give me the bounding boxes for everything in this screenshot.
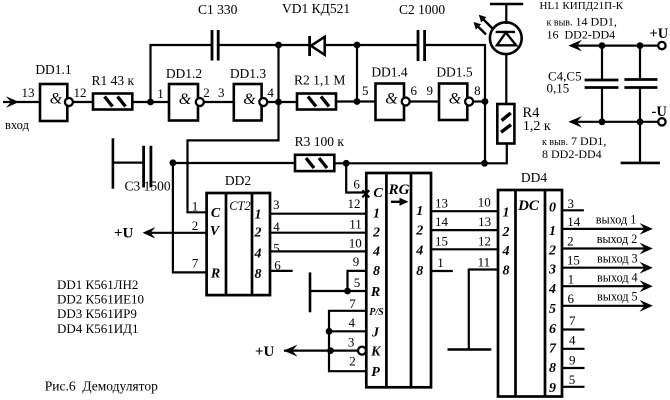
svg-text:&: &	[179, 91, 192, 108]
svg-text:выход 2: выход 2	[597, 232, 638, 246]
svg-text:5: 5	[354, 275, 361, 290]
svg-text:4: 4	[267, 85, 274, 100]
block DD4 К561ИД1 (DC)	[498, 170, 562, 397]
wire C3 node to R3	[173, 162, 295, 164]
svg-text:выход 3: выход 3	[597, 251, 638, 265]
svg-text:10: 10	[478, 195, 491, 210]
svg-text:1: 1	[192, 199, 199, 214]
output wire выход 1	[562, 213, 653, 235]
svg-text:1: 1	[437, 255, 444, 270]
svg-text:3: 3	[568, 196, 575, 211]
svg-text:R: R	[370, 285, 380, 300]
svg-text:0,15: 0,15	[547, 80, 570, 95]
wire DD2 out 4 to DD3 in 4	[270, 250, 366, 252]
wire R1 to DD1.2	[132, 101, 169, 103]
resistor R4 1,2 к	[497, 104, 551, 144]
wire to DD4 in 8 from common bar	[469, 270, 498, 350]
common bar stub at DD3 R row	[309, 272, 312, 312]
svg-text:4: 4	[569, 333, 576, 348]
svg-text:CT2: CT2	[229, 199, 251, 213]
svg-text:&: &	[449, 91, 462, 108]
svg-text:3: 3	[273, 197, 280, 212]
gate DD1.5	[436, 65, 473, 120]
open stub DD4 out 8	[562, 367, 585, 369]
svg-text:15: 15	[567, 252, 580, 267]
output wire выход 5	[562, 289, 653, 311]
svg-text:2: 2	[567, 234, 574, 249]
wire DD1.2 to DD1.3	[205, 101, 234, 103]
wire C2 right to vertical drop	[425, 45, 485, 163]
wire R4 bottom to node	[485, 144, 507, 164]
svg-text:&: &	[385, 91, 398, 108]
svg-text:DD1.3: DD1.3	[230, 66, 267, 81]
LED triangle	[497, 33, 516, 46]
-U rail	[568, 104, 667, 128]
svg-text:DD4 К561ИД1: DD4 К561ИД1	[57, 321, 138, 336]
wire K row to bubble	[284, 350, 359, 352]
node at DD1.4 input	[354, 98, 361, 105]
svg-text:R1 43 к: R1 43 к	[92, 73, 135, 88]
node C5 top	[637, 42, 644, 49]
svg-text:14: 14	[435, 214, 449, 229]
capacitor C5	[624, 46, 657, 122]
svg-text:HL1 КИПД21П-К: HL1 КИПД21П-К	[540, 0, 624, 12]
svg-text:выход 4: выход 4	[597, 270, 638, 284]
resistor R1 43 к	[92, 73, 135, 110]
svg-text:9: 9	[427, 83, 434, 98]
svg-text:2: 2	[548, 243, 556, 258]
wire DD3 out 2 to DD4 in 2	[431, 229, 497, 231]
node R3 right	[343, 160, 350, 167]
svg-text:7: 7	[569, 313, 576, 328]
svg-text:8: 8	[549, 361, 556, 376]
svg-text:DD1.4: DD1.4	[371, 65, 408, 80]
open stub wire DD2 out 8	[270, 270, 293, 272]
+U arrow at DD3 K row	[255, 344, 298, 360]
svg-text:DD2 К561ИЕ10: DD2 К561ИЕ10	[57, 292, 144, 307]
wire node down and over to DD2 C input	[188, 45, 279, 212]
dynamic input mark at DD3 C	[362, 190, 369, 197]
svg-text:3: 3	[218, 85, 225, 100]
svg-text:11: 11	[349, 217, 362, 232]
svg-text:5: 5	[569, 372, 576, 387]
wire DD1.3 to R2	[268, 101, 297, 103]
svg-text:2: 2	[192, 218, 199, 233]
svg-text:3: 3	[348, 334, 355, 349]
LED cathode bar	[496, 31, 515, 33]
input arrow (вход)	[3, 96, 40, 132]
svg-text:4: 4	[372, 244, 380, 259]
gate DD1.3	[230, 66, 267, 121]
top wire to C1	[150, 44, 213, 46]
svg-text:DD1.2: DD1.2	[166, 66, 202, 81]
C4,C5 value label	[547, 68, 582, 95]
svg-text:выход 1: выход 1	[596, 213, 637, 227]
svg-text:DD1.1: DD1.1	[35, 62, 71, 77]
capacitor C1 330	[198, 2, 238, 61]
svg-text:9: 9	[549, 381, 556, 396]
svg-text:Рис.6 Демодулятор: Рис.6 Демодулятор	[45, 379, 158, 394]
svg-text:R2 1,1 М: R2 1,1 М	[294, 73, 345, 88]
svg-text:DD1 К561ЛН2: DD1 К561ЛН2	[57, 277, 138, 292]
svg-text:6: 6	[410, 83, 417, 98]
svg-text:+U: +U	[114, 226, 134, 242]
open stub DD4 out 6	[562, 328, 585, 330]
svg-text:-U: -U	[652, 104, 668, 120]
wire DD1.5 to node	[474, 100, 486, 102]
svg-text:2: 2	[254, 226, 262, 241]
svg-text:+U: +U	[650, 26, 669, 42]
svg-text:12: 12	[74, 85, 87, 100]
svg-text:4: 4	[254, 247, 262, 262]
gate DD1.2	[166, 66, 204, 121]
gate DD1.4	[371, 65, 409, 120]
wire node up to top rail	[356, 45, 358, 102]
svg-text:&: &	[243, 91, 256, 108]
svg-text:2: 2	[415, 224, 423, 239]
svg-text:J: J	[371, 325, 380, 340]
svg-text:1: 1	[373, 207, 380, 222]
svg-text:14: 14	[567, 214, 581, 229]
+U rail	[568, 26, 668, 51]
capacitor C4	[585, 46, 619, 122]
svg-text:7: 7	[549, 341, 557, 356]
inversion bubble at DD3 K input	[358, 347, 366, 355]
svg-text:2: 2	[349, 354, 356, 369]
svg-text:1: 1	[416, 204, 423, 219]
+U arrow to DD2 V input	[114, 226, 207, 242]
svg-text:1: 1	[549, 224, 556, 239]
svg-text:16 DD2-DD4: 16 DD2-DD4	[547, 27, 616, 41]
svg-text:1: 1	[255, 208, 262, 223]
open stub DD4 out 0	[562, 209, 584, 211]
bracket wire P/S J K P rows	[329, 311, 366, 371]
svg-text:2: 2	[372, 226, 380, 241]
svg-text:1: 1	[503, 206, 510, 221]
wire DD2 out 2 to DD3 in 2	[270, 232, 366, 234]
capacitor C2 1000	[399, 2, 445, 61]
svg-text:C2 1000: C2 1000	[399, 2, 445, 17]
LED HL1 top bar	[490, 3, 523, 6]
svg-text:C1 330: C1 330	[198, 2, 238, 17]
svg-text:4: 4	[273, 219, 280, 234]
node above DD1.4 input	[354, 42, 361, 49]
node DD1.3 output	[275, 99, 282, 106]
svg-text:C3 1500: C3 1500	[125, 178, 171, 193]
svg-text:C: C	[373, 186, 383, 201]
svg-text:8: 8	[416, 264, 423, 279]
svg-text:12: 12	[478, 233, 491, 248]
wire C1 to VD1	[218, 44, 308, 46]
svg-text:1,2 к: 1,2 к	[523, 119, 551, 134]
block DD2 К561ИЕ10	[207, 173, 270, 295]
svg-text:4: 4	[502, 244, 510, 259]
open stub DD4 out 7	[562, 348, 585, 350]
svg-text:вход: вход	[5, 118, 30, 132]
wire stub to C3	[113, 162, 144, 164]
open stub DD4 out 9	[562, 386, 585, 388]
svg-text:6: 6	[274, 258, 281, 273]
svg-text:DD3 К561ИР9: DD3 К561ИР9	[57, 306, 137, 321]
svg-text:2: 2	[203, 85, 210, 100]
svg-text:11: 11	[478, 255, 491, 270]
svg-text:DD4: DD4	[521, 170, 547, 185]
wire DD1.1 to R1	[74, 101, 93, 103]
svg-text:R3 100 к: R3 100 к	[295, 134, 345, 149]
svg-text:4: 4	[548, 282, 556, 297]
svg-text:DD2: DD2	[225, 173, 251, 188]
svg-text:DC: DC	[517, 198, 540, 214]
node on R wire	[344, 288, 351, 295]
svg-text:8: 8	[474, 83, 481, 98]
svg-text:&: &	[50, 91, 63, 108]
block DD3 К561ИР9 (RG)	[366, 173, 431, 387]
svg-text:K: K	[370, 345, 382, 360]
svg-text:12: 12	[348, 196, 361, 211]
svg-text:3: 3	[548, 262, 556, 277]
wire R row	[310, 290, 366, 292]
wire node up to top rail	[149, 44, 151, 102]
svg-text:8 DD2-DD4: 8 DD2-DD4	[542, 147, 602, 161]
svg-text:6: 6	[568, 291, 575, 306]
svg-text:к выв. 7 DD1,: к выв. 7 DD1,	[542, 134, 606, 148]
node J row	[326, 328, 333, 335]
svg-text:1: 1	[568, 272, 575, 287]
wire LED to R4	[505, 54, 507, 104]
node above DD1.3 output	[275, 42, 282, 49]
svg-text:6: 6	[549, 322, 556, 337]
LED HL1 circle	[490, 22, 522, 54]
svg-text:4: 4	[415, 243, 423, 258]
svg-text:10: 10	[349, 235, 362, 250]
svg-text:5: 5	[549, 302, 556, 317]
svg-text:13: 13	[435, 195, 448, 210]
svg-text:4: 4	[349, 315, 356, 330]
common bar stub left of C3	[112, 138, 115, 188]
gate DD1.1	[35, 62, 73, 121]
svg-text:5: 5	[273, 241, 280, 256]
resistor R2 1,1 М	[294, 73, 345, 110]
resistor R3 100 к	[295, 134, 345, 171]
wire C3 node down to DD2 R input	[173, 163, 207, 273]
svg-text:8: 8	[503, 263, 510, 278]
wire DD3 out 1 to DD4 in 1	[431, 210, 497, 212]
output wire выход 2	[562, 232, 653, 254]
LED emission arrow 2	[474, 22, 487, 35]
node at R3 wire	[481, 160, 488, 167]
svg-text:13: 13	[22, 85, 35, 100]
svg-text:5: 5	[362, 83, 369, 98]
wire DD1.4 to DD1.5	[411, 100, 440, 102]
capacitor C3 1500	[125, 146, 171, 194]
svg-text:к выв. 14 DD1,: к выв. 14 DD1,	[547, 15, 617, 29]
node C5 bottom	[637, 118, 644, 125]
wire DD3 out 4 to DD4 in 4	[431, 248, 497, 250]
wire R3 node down to DD3 C input	[346, 163, 366, 192]
svg-text:выход 5: выход 5	[597, 289, 638, 303]
svg-text:1: 1	[157, 86, 164, 101]
node C3 right	[170, 159, 177, 166]
node at R1 output	[147, 99, 154, 106]
wire bar to LED	[505, 4, 507, 24]
common bar below DD4 pin 11	[448, 348, 492, 351]
svg-text:6: 6	[353, 177, 360, 192]
svg-text:7: 7	[192, 255, 199, 270]
svg-text:8: 8	[255, 267, 262, 282]
svg-text:15: 15	[435, 233, 448, 248]
diode VD1 КД521	[282, 1, 350, 56]
wire node up to 8 input row	[348, 271, 367, 291]
wire DD2 out 1 to DD3 in 1	[270, 213, 366, 215]
svg-text:P: P	[371, 365, 380, 380]
svg-text:R: R	[210, 266, 220, 281]
node C4 bottom	[599, 118, 606, 125]
node K row	[327, 347, 334, 354]
wire VD1 to C2	[325, 44, 418, 46]
node DD1.5 output	[482, 98, 489, 105]
svg-text:0: 0	[549, 201, 556, 216]
output wire выход 3	[562, 251, 653, 273]
open stub wire DD3 out 8	[431, 270, 453, 272]
svg-text:+U: +U	[255, 344, 275, 360]
wire J row	[329, 330, 366, 332]
wire R2 to DD1.4	[336, 100, 376, 102]
svg-text:9: 9	[353, 254, 360, 269]
wire R3 to R4 node	[334, 162, 484, 164]
svg-text:RG: RG	[388, 182, 410, 198]
svg-text:9: 9	[569, 353, 576, 368]
svg-text:13: 13	[478, 214, 491, 229]
common bar below -U rail	[621, 122, 660, 163]
svg-text:VD1 КД521: VD1 КД521	[282, 1, 350, 16]
svg-text:7: 7	[349, 296, 356, 311]
node C4 top	[599, 42, 606, 49]
svg-text:DD1.5: DD1.5	[436, 65, 473, 80]
LED emission arrow 1	[479, 15, 493, 29]
svg-text:2: 2	[502, 225, 510, 240]
output wire выход 4	[562, 270, 653, 292]
svg-text:P/S: P/S	[369, 307, 384, 318]
svg-text:C: C	[211, 206, 221, 221]
svg-text:8: 8	[373, 264, 380, 279]
